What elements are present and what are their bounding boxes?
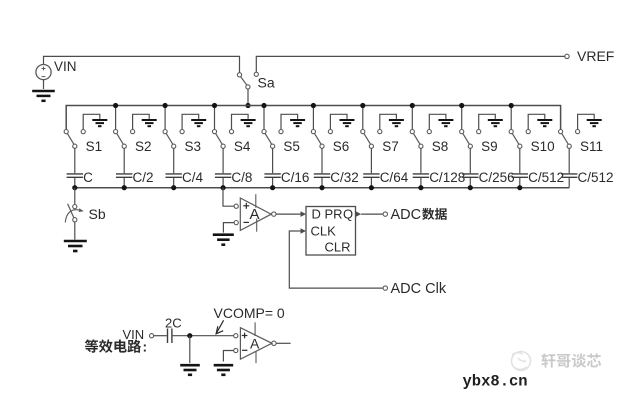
wire equivalent output	[276, 342, 291, 344]
svg-text:Sb: Sb	[89, 206, 106, 222]
svg-text:CLR: CLR	[325, 240, 351, 255]
wire S1 pole to capacitor	[74, 148, 76, 173]
wire capacitor 7 to bottom bus	[370, 178, 372, 188]
junction S7 bottom bus	[369, 185, 374, 190]
wire capacitor 8 to bottom bus	[420, 178, 422, 188]
voltage source VIN	[36, 65, 51, 80]
svg-text:S7: S7	[382, 139, 399, 154]
svg-text:S3: S3	[185, 139, 202, 154]
wire S4 pole to capacitor	[222, 148, 224, 173]
svg-text:C/4: C/4	[182, 170, 204, 185]
wire S9 pole to capacitor	[469, 148, 471, 173]
wire S3 pole to capacitor	[173, 148, 175, 173]
capacitor C/8 (branch 4)	[215, 174, 231, 177]
svg-text:S10: S10	[531, 139, 555, 154]
wire S10 pole to capacitor	[519, 148, 521, 173]
switch S1	[64, 130, 85, 149]
switch S7	[361, 130, 382, 149]
capacitor 2C	[168, 329, 172, 344]
svg-text:VCOMP= 0: VCOMP= 0	[214, 305, 285, 321]
wire comparator - input to ground	[223, 223, 234, 233]
node junction (equivalent)	[187, 333, 192, 338]
wire Q to ADC data terminal	[361, 213, 383, 215]
wire CLK to ADC Clk terminal	[289, 231, 383, 288]
svg-text:2C: 2C	[165, 316, 182, 331]
junction S3 top bus	[163, 103, 168, 108]
wire capacitor 6 to bottom bus	[321, 178, 323, 188]
wire 2C to node	[173, 335, 234, 337]
wire branch S9 to top bus	[461, 106, 463, 130]
wire branch S8 to top bus	[411, 106, 413, 130]
wire S7 ground hook	[380, 114, 397, 129]
wire CLK stub	[295, 230, 301, 232]
capacitor C (branch 1)	[67, 174, 83, 177]
wire bottom bus to comparator + input	[223, 188, 234, 207]
wire branch S4 to top bus	[214, 106, 216, 130]
capacitor C/64 (branch 7)	[363, 174, 379, 177]
capacitor C/4 (branch 3)	[166, 174, 182, 177]
svg-text:C/64: C/64	[380, 170, 409, 185]
wire branch S10 to top bus	[510, 106, 512, 130]
ground under Sb	[64, 241, 87, 251]
flip-flop U1 box	[306, 207, 356, 256]
svg-text:A: A	[250, 335, 260, 351]
wire capacitor 11 to bottom bus	[568, 178, 570, 188]
wire S5 ground hook	[281, 114, 298, 129]
wire S1 ground hook	[83, 114, 100, 129]
svg-text:S9: S9	[481, 139, 498, 154]
svg-text:C/512: C/512	[528, 170, 564, 185]
switch S4	[212, 130, 233, 149]
terminal VREF	[565, 54, 569, 58]
svg-text:C/256: C/256	[479, 170, 515, 185]
svg-text:VREF: VREF	[577, 48, 614, 64]
ground S11	[587, 120, 602, 126]
capacitor C/256 (branch 9)	[462, 174, 478, 177]
junction S5 top bus	[261, 103, 266, 108]
junction S7 top bus	[360, 103, 365, 108]
ground S9	[488, 120, 503, 126]
svg-text:D: D	[312, 207, 321, 222]
junction S10 top bus	[509, 103, 514, 108]
ground S3	[191, 120, 206, 126]
wire S2 pole to capacitor	[123, 148, 125, 173]
wire bottom bus to Sb	[74, 188, 76, 205]
op-amp comparator A (equivalent)	[234, 322, 276, 363]
ground S8	[438, 120, 453, 126]
ground S7	[389, 120, 404, 126]
terminal ADC Clk	[383, 286, 387, 290]
pin arrow CLK	[301, 228, 307, 234]
ground S4	[241, 120, 256, 126]
wire capacitor 2 to bottom bus	[123, 178, 125, 188]
capacitor C/16 (branch 5)	[264, 174, 280, 177]
svg-text:C/128: C/128	[429, 170, 465, 185]
junction S3 bottom bus	[171, 185, 176, 190]
ground S6	[340, 120, 355, 126]
junction S4 top bus	[212, 103, 217, 108]
svg-text:S6: S6	[333, 139, 350, 154]
switch Sb	[65, 204, 84, 223]
junction S9 top bus	[459, 103, 464, 108]
switch S10	[509, 130, 530, 149]
svg-text:S8: S8	[432, 139, 449, 154]
op-amp comparator A	[234, 194, 276, 232]
wire capacitor 1 to bottom bus	[74, 178, 76, 188]
switch S9	[460, 130, 481, 149]
wire VIN to 2C	[154, 335, 167, 337]
svg-text:VIN: VIN	[54, 59, 77, 74]
svg-text:VIN: VIN	[123, 327, 145, 342]
svg-text:ADC: ADC	[391, 207, 422, 223]
ground under VIN	[32, 91, 55, 101]
wire branch S7 to top bus	[362, 106, 364, 130]
wire branch S6 to top bus	[312, 106, 314, 130]
junction S6 bottom bus	[319, 185, 324, 190]
svg-text:C/16: C/16	[281, 170, 310, 185]
wire branch S2 to top bus	[115, 106, 117, 130]
wire Sb to ground	[74, 222, 76, 240]
wire capacitor 9 to bottom bus	[469, 178, 471, 188]
svg-text:ybx8.cn: ybx8.cn	[463, 373, 528, 391]
junction S10 bottom bus	[517, 185, 522, 190]
wire S11 pole to capacitor	[568, 148, 570, 173]
svg-text:Q: Q	[343, 207, 353, 222]
wire S5 pole to capacitor	[272, 148, 274, 173]
svg-text:CLK: CLK	[311, 224, 337, 239]
svg-text:A: A	[250, 206, 260, 223]
ground at comparator - input	[213, 235, 234, 245]
watermark logo	[512, 352, 531, 371]
wire S10 ground hook	[528, 114, 545, 129]
wire capacitor 5 to bottom bus	[272, 178, 274, 188]
wire node to ground	[189, 336, 191, 363]
wire comparator output to D input	[276, 213, 301, 215]
switch S6	[311, 130, 332, 149]
wire - input to ground (equivalent)	[223, 351, 234, 362]
wire S2 ground hook	[133, 114, 150, 129]
wire capacitor 3 to bottom bus	[173, 178, 175, 188]
arrow VCOMP	[216, 320, 224, 334]
wire S6 ground hook	[330, 114, 347, 129]
wire VIN top line	[44, 56, 240, 72]
wire bottom bus	[75, 187, 569, 189]
ground under node	[180, 365, 200, 375]
svg-text:S5: S5	[283, 139, 300, 154]
junction S2 bottom bus	[122, 185, 127, 190]
wire S11 ground hook	[578, 114, 595, 129]
wire S8 ground hook	[429, 114, 446, 129]
capacitor C/32 (branch 6)	[314, 174, 330, 177]
junction S2 top bus	[113, 103, 118, 108]
svg-text:C/32: C/32	[330, 170, 359, 185]
svg-text:ADC Clk: ADC Clk	[391, 281, 447, 297]
label equivalent circuit	[85, 339, 141, 353]
svg-text:C/2: C/2	[133, 170, 154, 185]
wire S3 ground hook	[182, 114, 199, 129]
wire S8 pole to capacitor	[420, 148, 422, 173]
pin arrow Q output	[356, 211, 362, 217]
svg-text:S4: S4	[234, 139, 251, 154]
wire S6 pole to capacitor	[321, 148, 323, 173]
junction S9 bottom bus	[468, 185, 473, 190]
wire VREF line	[256, 56, 565, 72]
svg-text:C: C	[83, 170, 93, 185]
wire VIN source to ground	[43, 80, 45, 89]
junction S1 bottom bus	[72, 185, 77, 190]
wire branch S3 to top bus	[164, 106, 166, 130]
terminal ADC data	[383, 212, 387, 216]
wire Sa pole to top bus	[247, 89, 249, 106]
junction S8 bottom bus	[418, 185, 423, 190]
junction S6 top bus	[311, 103, 316, 108]
watermark text	[541, 353, 601, 367]
capacitor C/512 (branch 10)	[512, 174, 528, 177]
ground at - input (equivalent)	[214, 365, 234, 375]
svg-text:C/512: C/512	[578, 170, 614, 185]
switch S2	[114, 130, 135, 149]
svg-text:Sa: Sa	[258, 74, 275, 90]
capacitor C/128 (branch 8)	[413, 174, 429, 177]
wire S7 pole to capacitor	[370, 148, 372, 173]
switch S3	[163, 130, 184, 149]
ground S10	[537, 120, 552, 126]
svg-text:C/8: C/8	[231, 170, 252, 185]
switch Sa	[237, 72, 258, 89]
switch S11	[559, 130, 580, 149]
switch S8	[410, 130, 431, 149]
wire S4 ground hook	[232, 114, 249, 129]
ground S5	[290, 120, 305, 126]
wire capacitor 4 to bottom bus	[222, 178, 224, 188]
junction S8 top bus	[410, 103, 415, 108]
wire capacitor 10 to bottom bus	[519, 178, 521, 188]
wire S9 ground hook	[479, 114, 496, 129]
capacitor C/2 (branch 2)	[116, 174, 132, 177]
junction S4 bottom bus	[221, 185, 226, 190]
pin arrow D	[301, 211, 307, 217]
junction S5 bottom bus	[270, 185, 275, 190]
svg-text:PR: PR	[325, 207, 343, 222]
svg-text:S2: S2	[135, 139, 152, 154]
junction Sa on top bus	[245, 103, 250, 108]
wire branch S5 to top bus	[263, 106, 265, 130]
terminal VIN equivalent	[150, 334, 154, 338]
svg-text:S11: S11	[580, 139, 603, 154]
svg-text:S1: S1	[86, 139, 103, 154]
ground S1	[92, 120, 107, 126]
ground S2	[142, 120, 157, 126]
wire top bus	[66, 106, 560, 130]
switch S5	[262, 130, 283, 149]
capacitor C/512 (branch 11)	[561, 174, 577, 177]
